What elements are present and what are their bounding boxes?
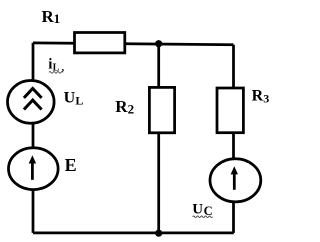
label R2 [115,97,134,117]
label U_L [64,90,84,108]
label U_C [192,202,212,219]
svg-text:L: L [75,93,83,107]
label R1 [42,7,61,26]
squiggle under U_C [193,216,213,218]
svg-text:U: U [192,202,203,218]
svg-text:R: R [115,97,128,116]
wire middle branch vertical [157,44,160,233]
svg-text:E: E [65,155,77,175]
source E circle [9,148,59,190]
wire bottom run [33,232,234,235]
arrow inside U_C [231,166,238,190]
label R3 [252,88,270,106]
junction node top [155,40,162,47]
svg-text:1: 1 [54,11,61,26]
resistor R3 [217,88,243,133]
source U_C circle [210,159,261,202]
source U_L circle [8,81,55,124]
junction node bottom [155,230,162,237]
squiggle under i_L [49,72,63,74]
svg-text:3: 3 [263,92,269,106]
svg-text:R: R [42,7,55,26]
svg-text:U: U [64,90,76,107]
label i_L with comma [48,57,64,74]
wire left branch vertical [32,43,35,233]
resistor R1 [75,33,125,53]
wire top run [33,43,234,45]
svg-text:2: 2 [128,102,135,117]
inductor chevrons inside U_L [24,89,42,110]
resistor R2 [149,87,174,132]
wire right branch vertical [232,45,235,233]
svg-text:R: R [252,88,264,105]
arrow inside E [29,155,36,180]
